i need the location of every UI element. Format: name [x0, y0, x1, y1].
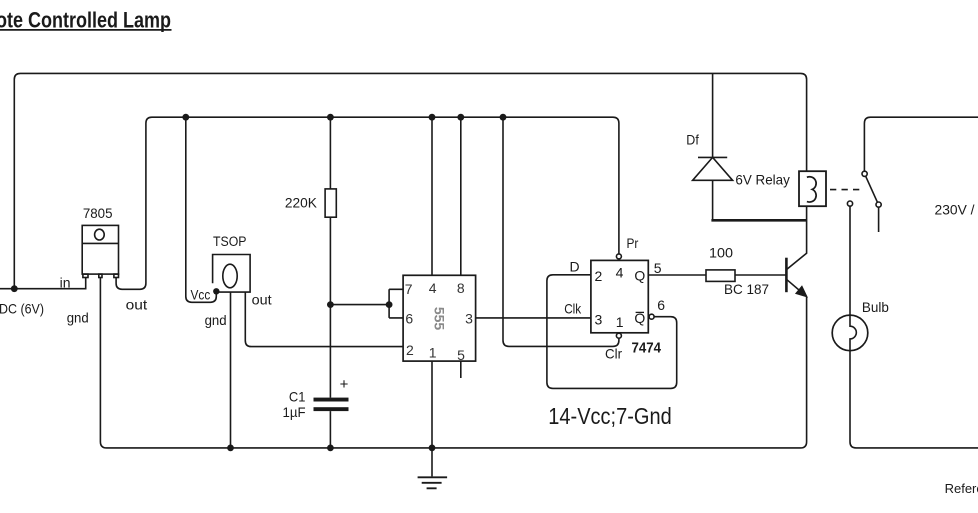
- 7474 Qbar bubble: [649, 314, 654, 319]
- node: junction dot 220K / 555 pins 6-7: [327, 301, 334, 308]
- wire: switch pole down to bulb: [849, 206, 851, 315]
- svg-text:Clk: Clk: [564, 300, 582, 316]
- wire: 220K bottom down to capacitor C1: [329, 217, 331, 397]
- svg-text:7805: 7805: [83, 205, 113, 221]
- node: junction dot DC input / top loop: [11, 285, 18, 292]
- svg-text:5: 5: [654, 260, 662, 276]
- wire: ground bottom rail from 7805 gnd pin to transistor emitter: [100, 278, 806, 448]
- transistor Q1 BC187 base bar: [785, 258, 788, 293]
- svg-text:1: 1: [429, 344, 437, 360]
- svg-text:Clr: Clr: [605, 346, 622, 362]
- wire: rail down to 555 pin 4: [431, 117, 433, 275]
- svg-text:5: 5: [457, 347, 465, 363]
- svg-text:2: 2: [595, 268, 603, 284]
- svg-text:Remote Controlled Lamp: Remote Controlled Lamp: [0, 8, 171, 33]
- resistor 220K: [325, 189, 336, 217]
- svg-text:7: 7: [405, 281, 413, 297]
- svg-text:4: 4: [429, 280, 437, 296]
- svg-text:out: out: [126, 297, 148, 313]
- wire: TSOP out down and across to 555 pin 2: [245, 292, 403, 347]
- wire: 7474 Q output to 100R resistor: [648, 274, 706, 276]
- svg-text:Bulb: Bulb: [862, 299, 889, 315]
- node: rail dot at 220K drop: [327, 114, 334, 121]
- node: rail dot at 555 pin4 drop: [429, 114, 436, 121]
- svg-text:7474: 7474: [632, 340, 662, 357]
- svg-text:DC (6V): DC (6V): [0, 301, 44, 317]
- transistor emitter with arrow: [787, 280, 807, 297]
- svg-text:1: 1: [616, 314, 624, 330]
- wire: 7805 out pin up to +5V rail, across to 7474 Pr pin: [116, 117, 619, 289]
- ground: [431, 448, 433, 477]
- node: junction dot C1 / ground rail: [327, 445, 334, 452]
- IR receiver TSOP box: [213, 255, 251, 293]
- 7474 Clr bubble: [616, 333, 621, 338]
- wire: 7474 Qbar feedback loop to D input: [547, 275, 677, 389]
- svg-text:230V /: 230V /: [935, 202, 975, 218]
- wire: C1 bottom to ground rail: [329, 411, 331, 448]
- svg-text:8: 8: [457, 280, 465, 296]
- resistor 100: [706, 270, 735, 282]
- svg-text:gnd: gnd: [67, 310, 89, 326]
- diode Df: [712, 73, 714, 157]
- svg-text:Vcc: Vcc: [191, 288, 211, 303]
- wire: 555 pin 3 output to 7474 Clk: [476, 317, 591, 319]
- svg-text:555: 555: [432, 307, 448, 331]
- wire: bulb bottom to 230V return line: [850, 351, 978, 448]
- wire: switch top terminal up to 230V line: [864, 117, 978, 171]
- svg-text:6: 6: [405, 311, 413, 327]
- svg-text:in: in: [60, 275, 71, 291]
- capacitor C1 plates: [314, 398, 349, 402]
- wire: TSOP gnd down to ground rail: [230, 292, 232, 448]
- relay coil box 6V Relay: [799, 171, 826, 206]
- svg-text:3: 3: [595, 312, 603, 328]
- svg-text:References: References: [945, 481, 978, 496]
- svg-text:Pr: Pr: [627, 235, 639, 251]
- svg-text:6V Relay: 6V Relay: [735, 171, 789, 187]
- relay coil arcs: [807, 177, 816, 202]
- svg-text:6: 6: [657, 297, 665, 313]
- 555 pin numbers: [405, 280, 473, 363]
- op-amp U1: timer IC 555 box: [403, 275, 476, 361]
- svg-text:1µF: 1µF: [283, 404, 306, 420]
- wire: 555 pin 5 stub: [460, 361, 462, 378]
- lamp Bulb: [832, 315, 868, 351]
- node: rail dot at 555 pin8 drop: [457, 114, 464, 121]
- wire: 100R resistor to transistor base: [735, 274, 786, 276]
- svg-text:Q: Q: [634, 267, 645, 283]
- flip-flop U2: 7474 box: [591, 260, 648, 332]
- svg-text:+: +: [340, 376, 349, 393]
- wire: rail down to 555 pin 8: [460, 117, 462, 275]
- node: junction dot on pin6/7 bracket: [386, 301, 393, 308]
- svg-text:BC 187: BC 187: [724, 281, 769, 297]
- svg-text:2: 2: [406, 342, 414, 358]
- svg-text:out: out: [252, 291, 272, 307]
- wire: junction to 555 pin6/7 bracket: [330, 289, 403, 318]
- wire: DC input to 7805 in pin: [0, 278, 86, 289]
- wire: rail down and across to 7474 Clr pin: [503, 117, 619, 346]
- wire: 555 pin 1 to ground rail: [431, 361, 433, 448]
- wire: relay bottom to transistor collector: [787, 207, 807, 270]
- node: junction dot TSOP gnd / ground rail: [227, 445, 234, 452]
- svg-text:Df: Df: [686, 132, 699, 148]
- wire: +V top loop from DC input up across top to relay: [14, 73, 806, 288]
- wire: diode anode to relay bottom / collector (thick): [711, 219, 806, 222]
- svg-text:220K: 220K: [285, 195, 318, 211]
- 7805 pins: [83, 274, 88, 277]
- node: junction dot 555 pin1 / ground rail: [429, 445, 436, 452]
- node: rail dot at TSOP Vcc drop: [182, 114, 189, 121]
- svg-text:3: 3: [465, 311, 473, 327]
- svg-text:100: 100: [709, 245, 733, 261]
- wire: rail down to 220K resistor: [329, 117, 331, 189]
- svg-text:14-Vcc;7-Gnd: 14-Vcc;7-Gnd: [548, 403, 671, 429]
- node: junction dot TSOP Vcc: [213, 288, 219, 294]
- svg-text:C1: C1: [289, 389, 306, 405]
- regulator 7805 box: [82, 225, 118, 274]
- svg-text:TSOP: TSOP: [213, 234, 247, 249]
- 7474 Pr bubble: [616, 254, 621, 259]
- svg-text:4: 4: [616, 265, 624, 281]
- svg-text:D: D: [570, 259, 580, 275]
- relay dashed mechanical link: [830, 189, 861, 191]
- wire: rail down to TSOP Vcc pin: [186, 117, 217, 302]
- svg-text:gnd: gnd: [205, 312, 227, 328]
- switch contact circles and arm: [862, 171, 867, 176]
- node: rail dot at 7474 Clr drop: [500, 114, 507, 121]
